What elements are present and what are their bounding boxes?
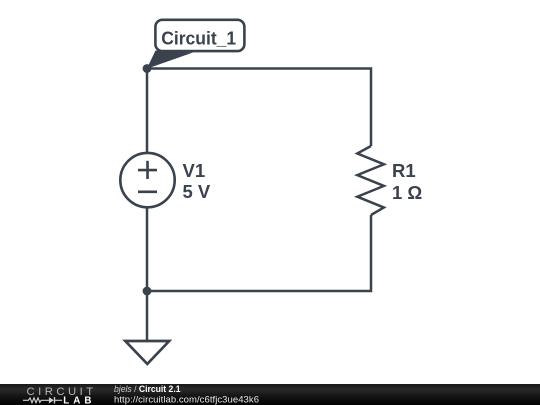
svg-text:1 Ω: 1 Ω	[392, 182, 422, 203]
node B bottom-left junction	[143, 287, 152, 296]
svg-text:LAB: LAB	[63, 396, 92, 405]
resistor R1	[357, 146, 384, 215]
svg-text:http://circuitlab.com/c6tfjc3u: http://circuitlab.com/c6tfjc3ue43k6	[114, 394, 259, 405]
footer bar	[0, 384, 540, 405]
svg-text:bjels / Circuit 2.1: bjels / Circuit 2.1	[114, 384, 181, 394]
logo wire to LAB	[55, 399, 62, 401]
callout bubble Circuit_1	[155, 20, 244, 51]
callout tail	[147, 51, 193, 69]
wire right lower vertical and bottom horizontal	[147, 215, 371, 291]
wire left upper vertical	[146, 69, 149, 153]
logo diode bar	[54, 397, 56, 403]
svg-text:Circuit_1: Circuit_1	[161, 27, 236, 48]
ground	[125, 341, 169, 364]
logo resistor squiggle	[23, 398, 49, 403]
svg-text:R1: R1	[392, 160, 416, 181]
voltage source V1	[120, 153, 174, 207]
wire left lower vertical	[146, 208, 149, 292]
logo diode	[49, 397, 54, 403]
node A top-left junction	[143, 64, 152, 73]
ground wire	[146, 291, 149, 341]
svg-text:V1: V1	[183, 160, 206, 181]
svg-text:5 V: 5 V	[183, 181, 211, 202]
wire top horizontal and right upper vertical	[147, 69, 371, 147]
